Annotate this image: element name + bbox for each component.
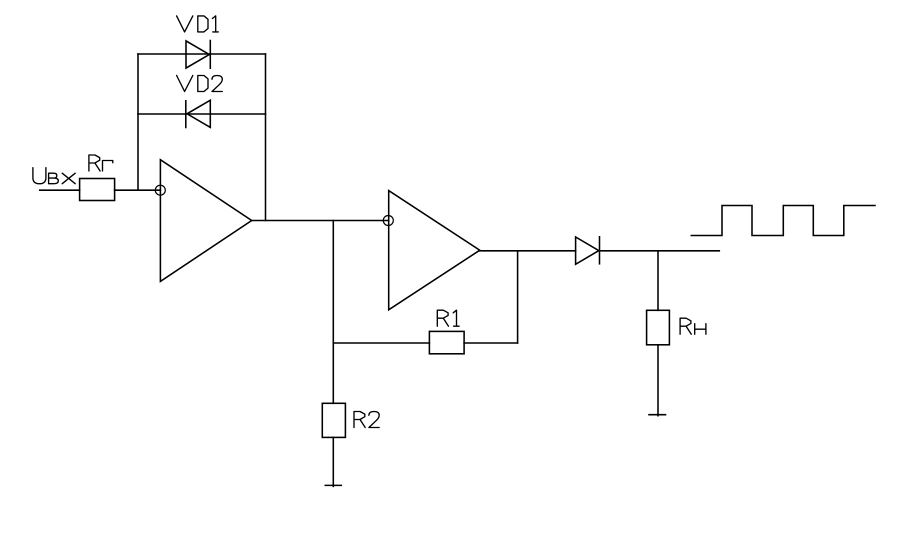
wire diode branch to U1 output [265,54,267,221]
resistor R1 [429,331,464,353]
ground (R2) [325,484,341,486]
wire node A vertical (U1 output down to R2) [332,221,334,404]
label Uвх (input net name) [33,168,75,184]
wire R1 left [333,342,429,344]
wire Rн to ground [657,345,659,416]
label Rн [680,318,706,334]
label VD1 [177,16,219,32]
ground (Rн) [649,414,666,416]
resistor Rн [647,310,670,345]
wire VD2 branch [138,113,266,115]
label R2 [354,412,379,428]
wire output down to Rн [657,251,659,310]
inverting input bubble U2 [383,216,393,226]
wire VD3 to output [600,250,720,252]
wire U1 output to U2 input [252,220,389,222]
wire input to Rг [40,189,80,191]
label VD2 [177,76,223,92]
wire R2 to ground [332,437,334,486]
diode VD3 [576,237,600,264]
label Rг [89,155,113,171]
diode VD1 [186,41,210,69]
junction node: U1 input / diode branch [137,54,139,190]
wire U2 output feedback vertical [517,251,519,343]
label R1 [437,310,459,326]
resistor R2 [322,403,345,437]
wire U2 output to VD3 [480,250,576,252]
resistor Rг [80,179,115,201]
wire Rг to U1 inverting input [115,189,161,191]
op-amp U2 [389,191,480,310]
wire R1 right [464,342,517,344]
output waveform (square wave) [691,206,875,236]
wire VD1 branch top [138,53,266,55]
diode VD2 [186,100,211,127]
inverting input bubble U1 [155,185,165,195]
op-amp U1 [160,160,251,282]
